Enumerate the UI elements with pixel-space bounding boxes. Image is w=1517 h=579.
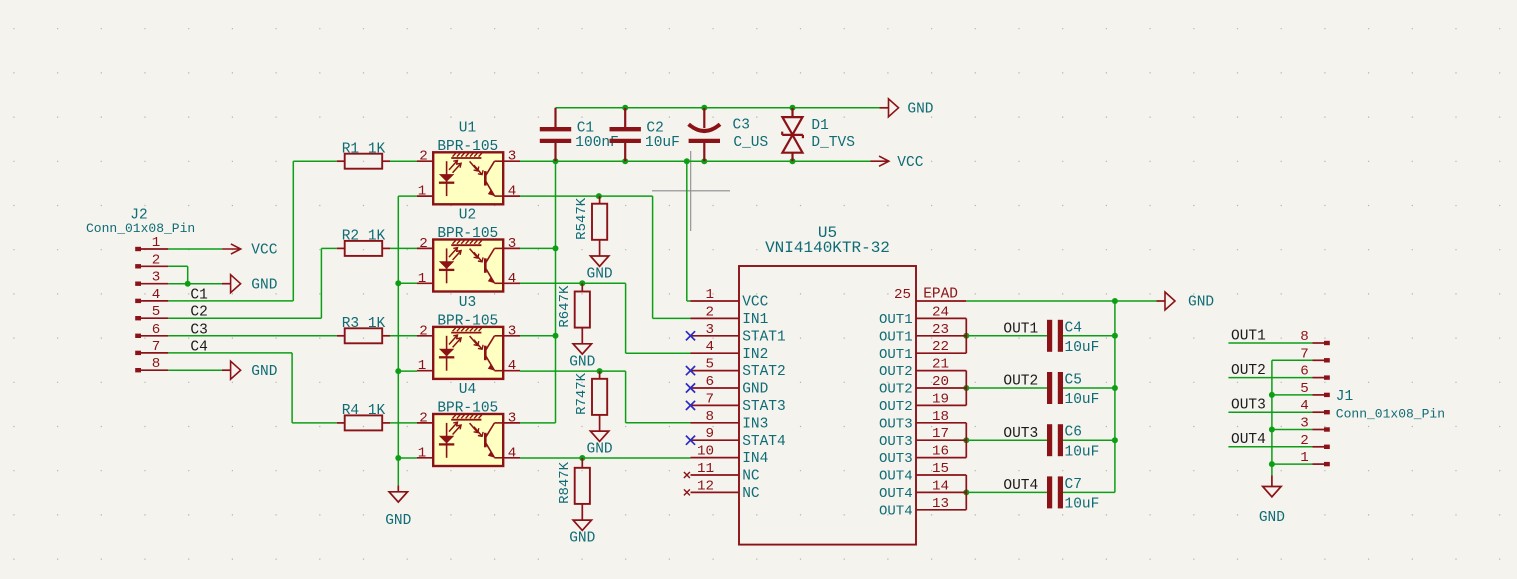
svg-text:2: 2 <box>419 236 428 252</box>
svg-text:6: 6 <box>152 322 161 338</box>
svg-text:OUT2: OUT2 <box>1231 363 1266 379</box>
svg-text:10uF: 10uF <box>1065 444 1100 460</box>
svg-text:10: 10 <box>697 444 714 460</box>
svg-text:STAT2: STAT2 <box>742 364 786 380</box>
svg-text:12: 12 <box>697 478 714 494</box>
svg-text:OUT4: OUT4 <box>1231 432 1266 448</box>
svg-text:1: 1 <box>418 358 427 374</box>
svg-text:Conn_01x08_Pin: Conn_01x08_Pin <box>1336 406 1445 421</box>
svg-text:1: 1 <box>1300 450 1309 466</box>
svg-text:OUT2: OUT2 <box>879 399 913 415</box>
svg-text:14: 14 <box>932 478 949 494</box>
svg-text:11: 11 <box>697 461 714 477</box>
svg-text:OUT1: OUT1 <box>1003 321 1038 337</box>
svg-text:5: 5 <box>705 357 714 373</box>
svg-text:IN4: IN4 <box>742 451 768 467</box>
svg-text:D_TVS: D_TVS <box>811 135 855 151</box>
svg-text:C6: C6 <box>1065 425 1082 441</box>
svg-text:4: 4 <box>508 184 517 200</box>
svg-text:OUT2: OUT2 <box>1003 374 1038 390</box>
svg-text:4: 4 <box>508 445 517 461</box>
svg-text:C2: C2 <box>190 305 207 321</box>
svg-text:16: 16 <box>932 444 949 460</box>
svg-text:R847K: R847K <box>557 461 573 504</box>
svg-text:U1: U1 <box>459 120 476 136</box>
svg-text:6: 6 <box>705 374 714 390</box>
svg-text:OUT2: OUT2 <box>879 382 913 398</box>
svg-text:R3 1K: R3 1K <box>342 316 386 332</box>
svg-text:BPR-105: BPR-105 <box>437 139 498 155</box>
svg-text:4: 4 <box>705 339 714 355</box>
svg-text:R1 1K: R1 1K <box>342 141 386 157</box>
svg-text:OUT1: OUT1 <box>1231 328 1266 344</box>
svg-text:EPAD: EPAD <box>923 287 958 303</box>
svg-text:5: 5 <box>1300 381 1309 397</box>
svg-text:19: 19 <box>932 391 949 407</box>
svg-text:8: 8 <box>152 356 161 372</box>
svg-text:OUT3: OUT3 <box>879 434 913 450</box>
svg-text:1: 1 <box>705 287 714 303</box>
svg-text:7: 7 <box>705 391 714 407</box>
svg-text:3: 3 <box>705 322 714 338</box>
svg-text:3: 3 <box>508 323 517 339</box>
svg-text:R4 1K: R4 1K <box>342 403 386 419</box>
svg-text:3: 3 <box>508 236 517 252</box>
svg-text:OUT1: OUT1 <box>879 329 913 345</box>
svg-text:8: 8 <box>705 409 714 425</box>
svg-text:STAT4: STAT4 <box>742 434 786 450</box>
svg-text:20: 20 <box>932 374 949 390</box>
svg-text:1: 1 <box>418 184 427 200</box>
svg-text:23: 23 <box>932 322 949 338</box>
svg-text:OUT3: OUT3 <box>879 416 913 432</box>
svg-text:OUT4: OUT4 <box>879 486 913 502</box>
svg-text:9: 9 <box>705 426 714 442</box>
svg-text:IN1: IN1 <box>742 312 768 328</box>
svg-text:BPR-105: BPR-105 <box>437 401 498 417</box>
svg-text:4: 4 <box>1300 398 1309 414</box>
svg-text:C_US: C_US <box>733 135 768 151</box>
svg-text:OUT4: OUT4 <box>879 503 913 519</box>
svg-text:OUT1: OUT1 <box>879 312 913 328</box>
svg-text:VCC: VCC <box>742 295 768 311</box>
svg-text:R747K: R747K <box>574 372 590 415</box>
svg-text:OUT1: OUT1 <box>879 347 913 363</box>
svg-text:17: 17 <box>932 426 949 442</box>
svg-text:R547K: R547K <box>574 197 590 240</box>
svg-text:GND: GND <box>251 277 277 293</box>
svg-text:OUT3: OUT3 <box>1231 398 1266 414</box>
svg-text:15: 15 <box>932 461 949 477</box>
svg-text:R647K: R647K <box>557 285 573 328</box>
svg-text:1: 1 <box>152 235 161 251</box>
svg-text:VCC: VCC <box>251 243 277 259</box>
svg-text:10uF: 10uF <box>1065 497 1100 513</box>
svg-text:STAT3: STAT3 <box>742 399 786 415</box>
svg-text:GND: GND <box>569 531 595 547</box>
svg-text:10uF: 10uF <box>645 135 680 151</box>
svg-text:GND: GND <box>251 364 277 380</box>
svg-text:3: 3 <box>508 410 517 426</box>
svg-text:VCC: VCC <box>897 155 923 171</box>
svg-text:2: 2 <box>419 323 428 339</box>
svg-text:25: 25 <box>894 287 911 303</box>
svg-text:OUT4: OUT4 <box>1003 478 1038 494</box>
svg-text:1: 1 <box>418 271 427 287</box>
svg-text:8: 8 <box>1300 329 1309 345</box>
svg-text:U3: U3 <box>459 295 476 311</box>
svg-text:J1: J1 <box>1336 389 1353 405</box>
svg-text:OUT4: OUT4 <box>879 469 913 485</box>
svg-text:C1: C1 <box>190 287 207 303</box>
svg-text:U4: U4 <box>459 382 476 398</box>
svg-text:GND: GND <box>742 382 768 398</box>
svg-text:2: 2 <box>419 149 428 165</box>
svg-text:3: 3 <box>1300 416 1309 432</box>
svg-text:7: 7 <box>152 339 161 355</box>
svg-text:OUT3: OUT3 <box>879 451 913 467</box>
svg-text:GND: GND <box>1259 510 1285 526</box>
svg-text:5: 5 <box>152 304 161 320</box>
svg-text:GND: GND <box>569 354 595 370</box>
svg-text:C4: C4 <box>190 339 207 355</box>
svg-text:10uF: 10uF <box>1065 392 1100 408</box>
svg-text:C4: C4 <box>1065 320 1082 336</box>
svg-text:GND: GND <box>907 101 933 117</box>
svg-text:OUT2: OUT2 <box>879 364 913 380</box>
svg-text:3: 3 <box>152 270 161 286</box>
svg-text:24: 24 <box>932 304 949 320</box>
svg-text:4: 4 <box>508 271 517 287</box>
svg-text:BPR-105: BPR-105 <box>437 313 498 329</box>
svg-text:D1: D1 <box>811 118 828 134</box>
svg-text:IN3: IN3 <box>742 416 768 432</box>
svg-text:21: 21 <box>932 357 949 373</box>
svg-text:C3: C3 <box>733 118 750 134</box>
svg-text:3: 3 <box>508 149 517 165</box>
svg-text:18: 18 <box>932 409 949 425</box>
svg-text:Conn_01x08_Pin: Conn_01x08_Pin <box>86 221 195 236</box>
svg-text:7: 7 <box>1300 346 1309 362</box>
svg-text:BPR-105: BPR-105 <box>437 226 498 242</box>
svg-text:GND: GND <box>587 442 613 458</box>
svg-text:C7: C7 <box>1065 477 1082 493</box>
svg-text:GND: GND <box>587 267 613 283</box>
svg-text:6: 6 <box>1300 364 1309 380</box>
svg-text:OUT3: OUT3 <box>1003 426 1038 442</box>
svg-text:GND: GND <box>1188 294 1214 310</box>
svg-text:R2 1K: R2 1K <box>342 229 386 245</box>
svg-text:C3: C3 <box>190 322 207 338</box>
svg-text:2: 2 <box>152 252 161 268</box>
svg-text:4: 4 <box>508 358 517 374</box>
svg-text:2: 2 <box>419 410 428 426</box>
svg-text:STAT1: STAT1 <box>742 329 786 345</box>
svg-text:2: 2 <box>1300 433 1309 449</box>
svg-text:4: 4 <box>152 287 161 303</box>
svg-text:22: 22 <box>932 339 949 355</box>
svg-text:U2: U2 <box>459 208 476 224</box>
svg-text:10uF: 10uF <box>1065 340 1100 356</box>
svg-text:1: 1 <box>418 445 427 461</box>
svg-text:2: 2 <box>705 304 714 320</box>
svg-text:C5: C5 <box>1065 373 1082 389</box>
svg-text:NC: NC <box>742 486 760 502</box>
svg-text:13: 13 <box>932 496 949 512</box>
svg-text:GND: GND <box>385 513 411 529</box>
svg-text:NC: NC <box>742 469 760 485</box>
svg-text:IN2: IN2 <box>742 347 768 363</box>
svg-text:VNI4140KTR-32: VNI4140KTR-32 <box>765 239 890 257</box>
